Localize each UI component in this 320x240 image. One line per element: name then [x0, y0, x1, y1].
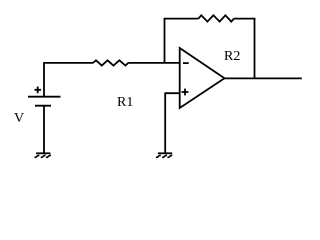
battery plus sign	[35, 87, 42, 94]
battery bottom plate (-)	[35, 105, 51, 107]
battery top plate (+)	[28, 96, 61, 98]
ground (battery)	[35, 152, 51, 157]
wire (feedback top right)	[234, 18, 256, 20]
battery V	[28, 87, 61, 106]
pin - (inverting input mark)	[183, 62, 189, 64]
wire (battery + terminal up to input line)	[44, 63, 93, 97]
wire (feedback top left)	[164, 18, 199, 20]
svg-text:R2: R2	[224, 49, 240, 64]
op-amp U1	[180, 48, 225, 108]
ground (op-amp non-inverting)	[156, 152, 172, 157]
wire (non-inverting input to ground)	[165, 93, 180, 152]
resistor R1	[93, 60, 128, 65]
resistor R2	[198, 15, 234, 21]
wire (feedback right vertical)	[254, 19, 256, 79]
wire (feedback left vertical)	[164, 19, 166, 63]
wire (output)	[225, 77, 302, 79]
wire (battery - terminal to ground)	[43, 106, 45, 153]
pin + (non-inverting input mark)	[182, 89, 189, 96]
svg-text:R1: R1	[117, 95, 133, 110]
svg-text:V: V	[14, 111, 24, 126]
wire (R1 to inverting input)	[128, 62, 180, 64]
